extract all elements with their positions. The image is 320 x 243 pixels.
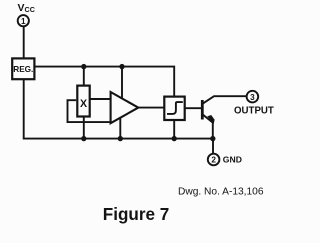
svg-text:Figure 7: Figure 7 xyxy=(103,205,170,224)
schmitt trigger U2 xyxy=(164,97,184,120)
wire: top rail to amplifier top edge xyxy=(121,67,123,99)
transistor Q1 emitter with arrowhead xyxy=(203,115,215,139)
svg-text:OUTPUT: OUTPUT xyxy=(234,105,274,116)
svg-text:GND: GND xyxy=(223,154,242,164)
wire: top supply rail from REG to schmitt box xyxy=(35,67,174,96)
junction dot: ground rail under crystal xyxy=(81,136,86,141)
transistor Q1 base bar xyxy=(201,100,204,120)
crystal X1 xyxy=(77,86,89,117)
svg-text:Dwg. No. A-13,106: Dwg. No. A-13,106 xyxy=(178,187,264,198)
wire: ground rail to pin 2 xyxy=(212,139,214,154)
svg-text:3: 3 xyxy=(250,93,255,102)
svg-text:1: 1 xyxy=(21,17,26,26)
terminal pin 3 xyxy=(247,91,259,103)
terminal pin 1 xyxy=(18,15,29,26)
wire: schmitt trigger output to transistor base xyxy=(185,107,202,109)
op-amp U1 (oscillator amplifier) xyxy=(111,92,139,123)
terminal pin 2 xyxy=(208,154,220,166)
junction dot: ground rail under schmitt trigger xyxy=(172,136,177,141)
voltage regulator REG xyxy=(12,58,34,79)
svg-text:REG.: REG. xyxy=(13,65,33,74)
junction dot: top rail over amplifier xyxy=(119,64,124,69)
wire: pin 1 to REG xyxy=(23,27,25,58)
svg-text:2: 2 xyxy=(211,156,216,165)
junction dot: top rail over crystal xyxy=(81,64,86,69)
transistor Q1 collector and wire to output pin xyxy=(203,96,247,103)
svg-text:X: X xyxy=(80,98,87,110)
wire: schmitt trigger bottom to ground rail xyxy=(173,120,175,139)
wire: amplifier bottom edge to ground rail xyxy=(119,117,121,139)
wire: crystal to amplifier input xyxy=(91,98,112,100)
junction dot: ground rail under amplifier xyxy=(118,136,123,141)
wire: top rail to crystal top xyxy=(83,67,85,85)
junction dot: ground rail at emitter xyxy=(210,136,215,141)
wire: amplifier output to schmitt trigger xyxy=(138,107,164,109)
wire: crystal feedback loop to amp lower vertex xyxy=(68,100,110,122)
wire: REG down and bottom ground rail xyxy=(24,79,213,138)
wire: crystal bottom to ground rail xyxy=(83,117,85,139)
